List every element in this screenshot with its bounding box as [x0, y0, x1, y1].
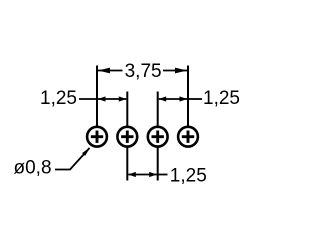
- extension line pin 1: [96, 66, 98, 138]
- dimension 1,25 bottom leader: [157, 174, 168, 176]
- pad hole 3: [148, 127, 168, 147]
- dimension 1,25 right arrow b: [180, 96, 188, 101]
- leader line diameter label: [55, 148, 90, 170]
- pad hole 2: [117, 127, 137, 147]
- dimension 1,25 left arrow a: [98, 96, 106, 101]
- dimension 1,25 bottom line: [128, 174, 156, 176]
- dimension 3,75 line right: [163, 70, 187, 72]
- center line pin 2: [126, 92, 128, 181]
- dimension 1,25 right arrow a: [159, 96, 167, 101]
- svg-text:1,25: 1,25: [203, 88, 240, 109]
- extension line pin 4: [187, 66, 189, 138]
- leader arrow diameter: [82, 148, 90, 156]
- center line pin 3: [157, 92, 159, 181]
- dimension 1,25 left leader: [79, 98, 98, 100]
- dimension 3,75 arrow left: [98, 68, 110, 74]
- dimension 1,25 left line: [98, 98, 126, 100]
- dimension 1,25 right leader: [187, 98, 202, 100]
- svg-text:ø0,8: ø0,8: [14, 157, 52, 178]
- pad hole 4: [178, 127, 198, 147]
- svg-text:1,25: 1,25: [170, 166, 207, 187]
- dimension 1,25 bottom arrow a: [128, 172, 136, 177]
- dimension 3,75 arrow right: [175, 68, 187, 74]
- dimension 1,25 left arrow b: [119, 96, 127, 101]
- svg-text:1,25: 1,25: [40, 88, 77, 109]
- svg-text:3,75: 3,75: [125, 61, 162, 82]
- pad hole 1: [87, 127, 107, 147]
- dimension 1,25 bottom arrow b: [149, 172, 157, 177]
- dimension 1,25 right line: [159, 98, 187, 100]
- dimension 3,75 line left: [98, 70, 123, 72]
